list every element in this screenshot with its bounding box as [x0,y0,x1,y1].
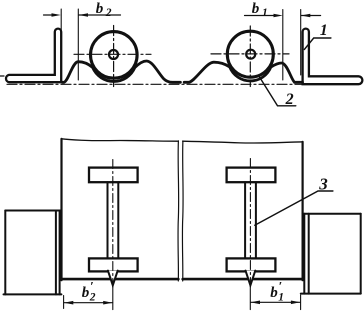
svg-text:1: 1 [320,22,328,39]
svg-text:b: b [96,1,104,17]
svg-text:2: 2 [105,7,112,19]
svg-text:2: 2 [285,91,294,108]
svg-text:b: b [270,285,278,301]
svg-text:b: b [252,1,260,17]
svg-text:1: 1 [262,7,268,19]
svg-text:3: 3 [318,175,328,194]
svg-text:2: 2 [89,291,96,303]
svg-text:b: b [82,285,90,301]
svg-text:1: 1 [278,291,284,303]
